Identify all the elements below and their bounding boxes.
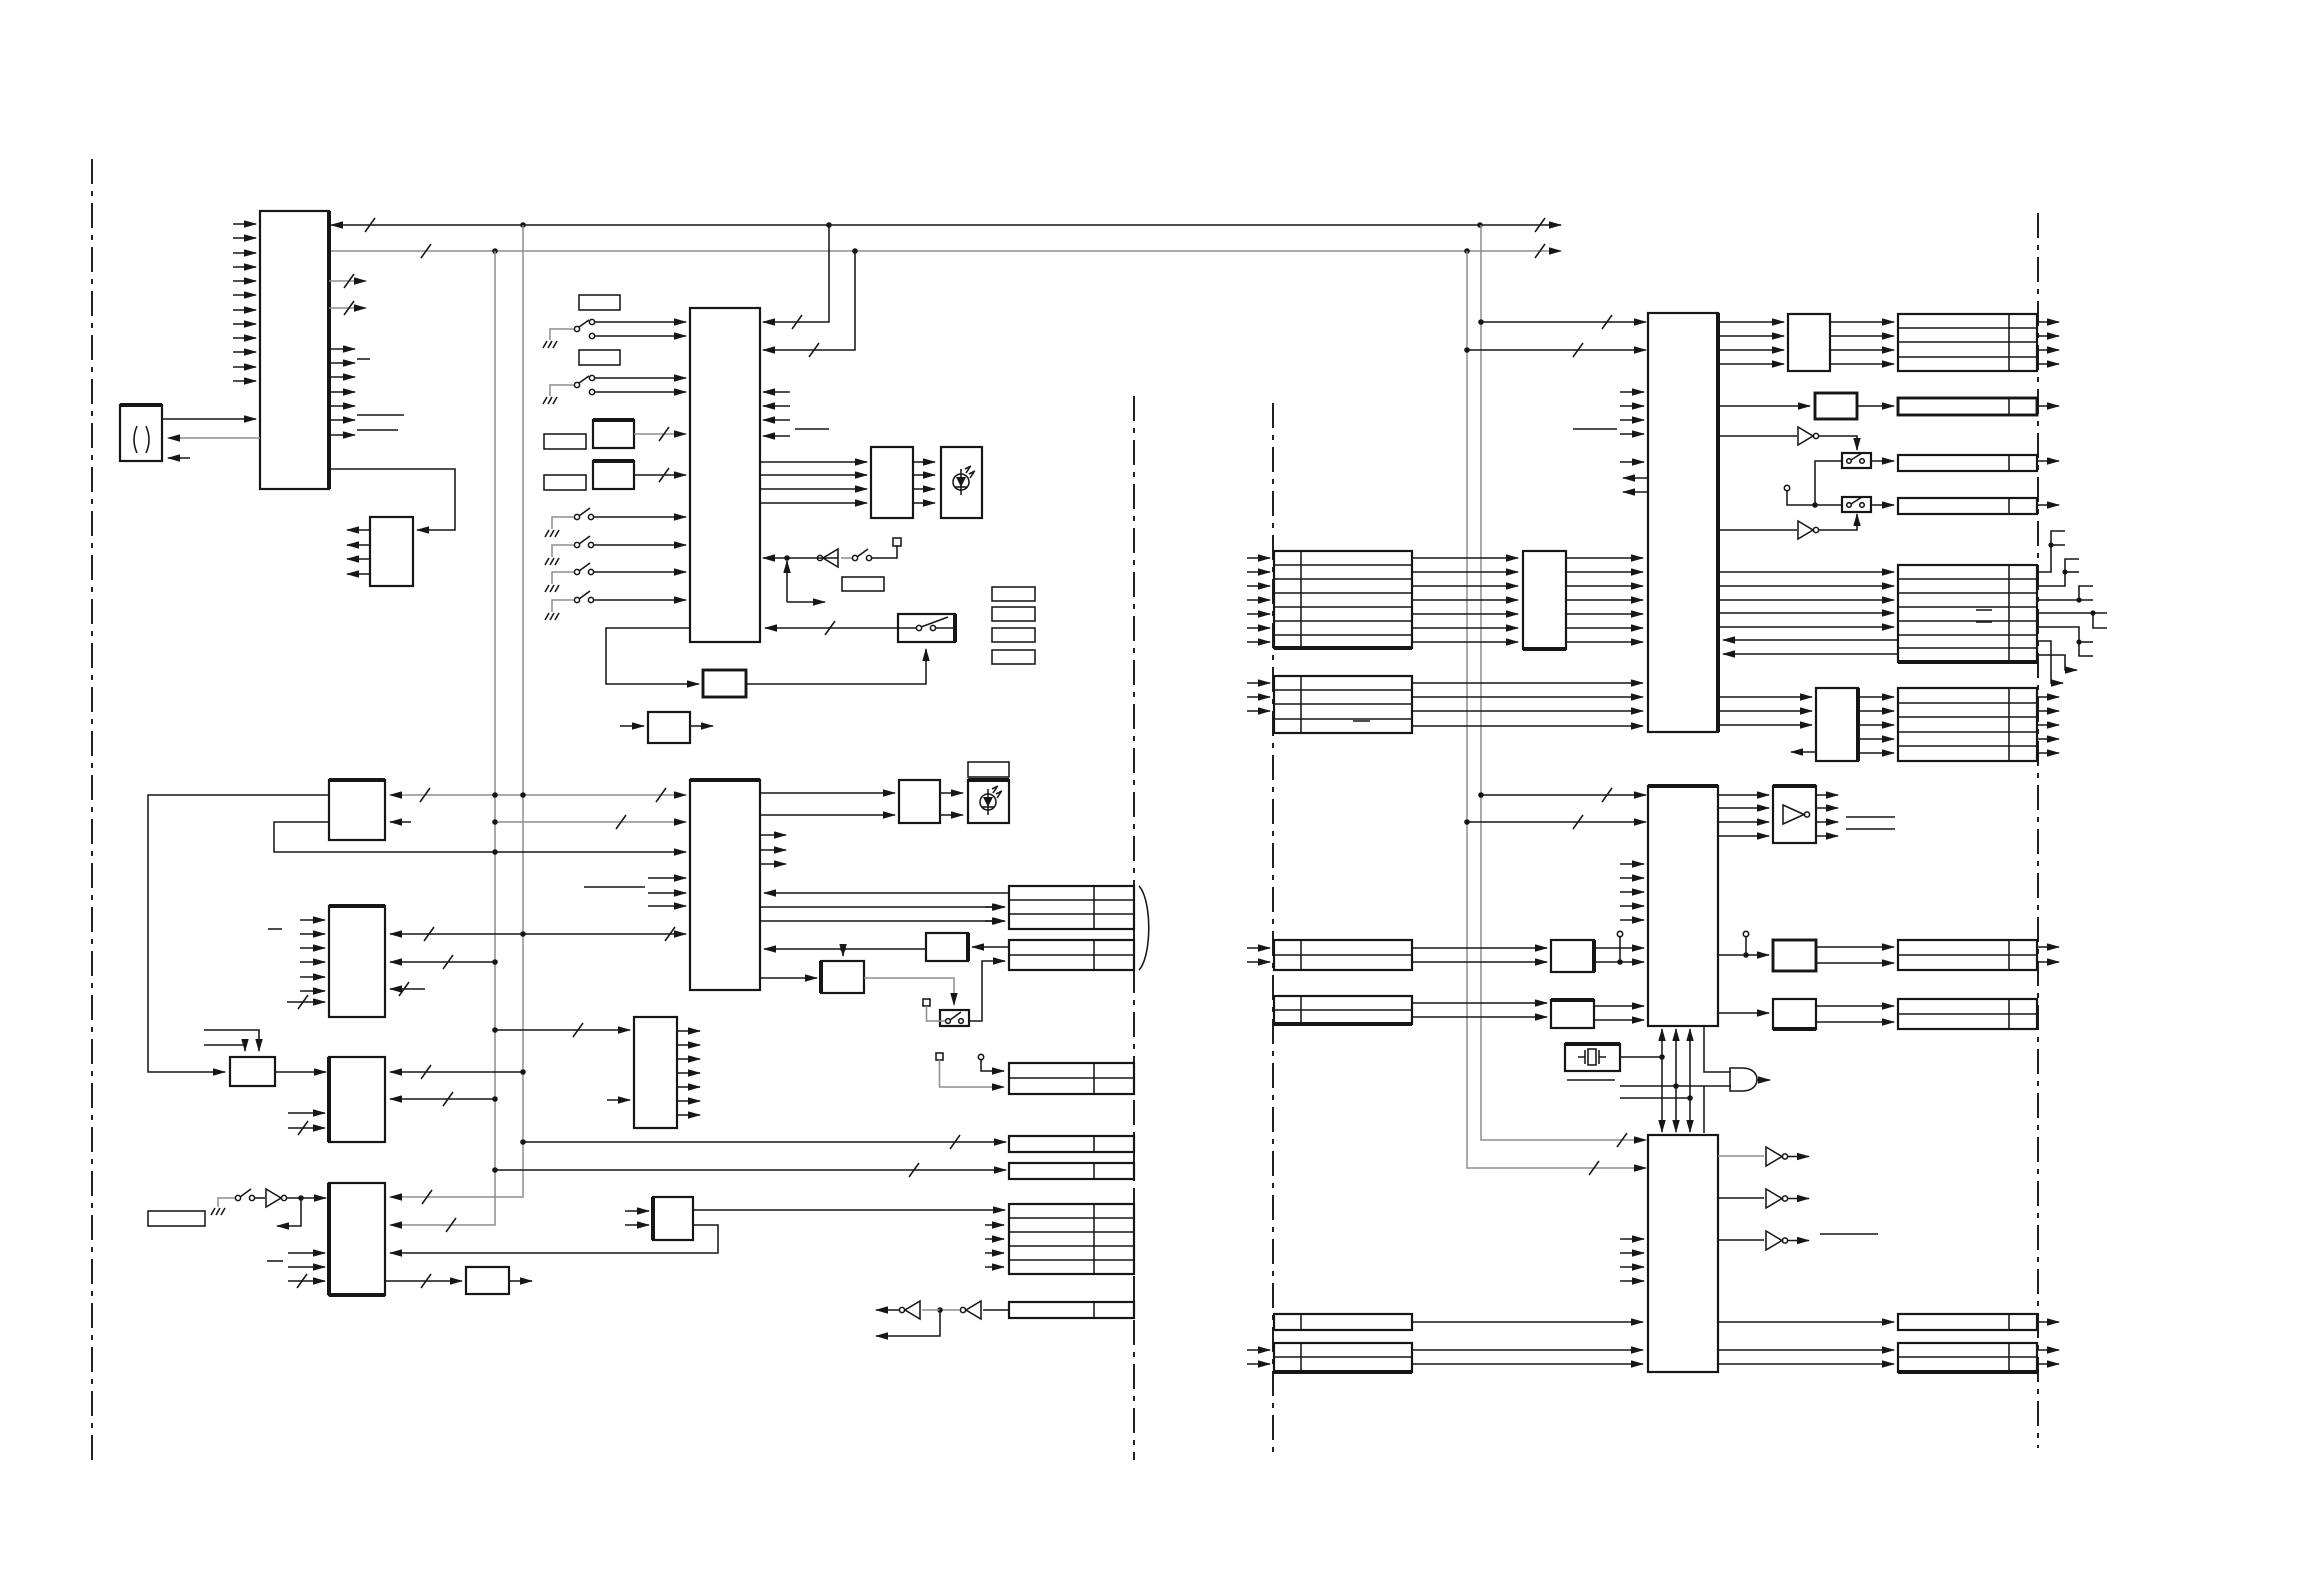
wire stub pins U30 left 3 [1620, 1266, 1644, 1268]
wire SW2 to U4 1 [594, 377, 686, 379]
wire stub pins U28 left 5 [1620, 919, 1644, 921]
wire D5 step out 1 [2037, 531, 2065, 572]
wire SW12 to D4 [1871, 504, 1894, 506]
LED D2 display [968, 780, 1009, 823]
wire input pins U14b 3 [300, 947, 325, 949]
wire C4 to U33 1 [1412, 947, 1547, 949]
wire input pins U14b 4 [300, 961, 325, 963]
wire input pins U1 12 [233, 380, 256, 382]
wire A4 to U22 [287, 1197, 326, 1199]
wire U27 to D1 2 [1830, 335, 1894, 337]
wire U32 to D6 3 [1858, 724, 1894, 726]
frame dash-dot border center-left [1133, 396, 1135, 1460]
connector box D10 [1898, 1343, 2037, 1372]
wire U20 to U21 [275, 1071, 326, 1073]
connector box B1 [1009, 886, 1134, 929]
wire U2b to U4 bus [634, 474, 686, 476]
wire stub node rail3 [1620, 1097, 1690, 1099]
label box K9 [992, 650, 1035, 664]
wire D5 to U25 return 1 [1723, 639, 1898, 641]
inverter A7 [1718, 1155, 1764, 1157]
IC U36 driver [1773, 999, 1816, 1029]
wire bus y962 into U14b [390, 961, 495, 963]
wire B2 row1 to U13 [972, 946, 1009, 948]
wire U24 to B6 row1 [693, 1209, 1005, 1211]
wire branch to U28 y822 [1467, 821, 1646, 823]
wire U8 to D2 1 [940, 792, 963, 794]
wire clock rail 1 2 [1661, 1080, 1663, 1132]
wire output pins U1 7 [329, 434, 355, 436]
wire U4 feedback to U10 [606, 628, 699, 684]
wire C1 to U26 6 [1412, 627, 1518, 629]
inverter A4 [254, 1197, 265, 1199]
wire U4 to U5 1 [760, 461, 867, 463]
wire U25 to D5 4 [1718, 612, 1894, 614]
switch SW7 [841, 557, 852, 559]
label box K11 [148, 1211, 205, 1226]
wire input pins B6 3 [985, 1252, 1004, 1254]
wire U28 to U29 4 [1718, 835, 1769, 837]
IC U3 driver [370, 517, 413, 586]
wire C3 to U35 1 [1412, 1002, 1547, 1004]
wire U26 to U25 1 [1566, 557, 1643, 559]
connector box D5 [1898, 565, 2037, 662]
inverter A3 [966, 1301, 981, 1319]
wire C1 to U26 2 [1412, 571, 1518, 573]
wire U30 to D10 1 [1718, 1349, 1894, 1351]
wire U13 to U12 [764, 948, 926, 950]
wire bus y934 between U14b and U4 [390, 933, 686, 935]
switch SW10 [218, 1198, 235, 1207]
wire U25 to U32 2 [1718, 710, 1812, 712]
wire U33 to U28 2 [1594, 961, 1644, 963]
connector box D9 [1898, 1314, 2037, 1330]
wire SW11 to D3 [1871, 460, 1894, 462]
wire U11 output [690, 725, 713, 727]
connector box D4 [1898, 498, 2037, 514]
wire U1 to U3 loop [329, 469, 455, 530]
wire B7 to A3 [983, 1309, 1009, 1311]
bus wire DATA2 top [329, 250, 1561, 252]
wire vertical bus drop x523 [390, 225, 523, 1197]
wire node branch down-left [277, 1198, 301, 1226]
wire output pins U1 1 [329, 348, 355, 350]
wire stub pins U21 [288, 1112, 325, 1114]
wire U12 to U8 1 [760, 792, 895, 794]
wire input pins B1 1 [985, 906, 1004, 908]
wire output pins D10 [2037, 1349, 2059, 1351]
wire clock rail 2 1 [1675, 1029, 1677, 1080]
inverter A8 [1718, 1197, 1764, 1199]
wire U25 to D5 3 [1718, 599, 1894, 601]
wire clock rail 2 2 [1675, 1080, 1677, 1132]
wire input pins U14b 5 [300, 976, 325, 978]
wire out pins U25 left 1 [1623, 477, 1648, 479]
wire output pin D2 [2037, 405, 2059, 407]
switch SW4 [574, 542, 579, 547]
connector box B2 [1009, 940, 1134, 970]
wire switch select rail [1815, 461, 1842, 505]
wire U26 to U25 2 [1566, 571, 1643, 573]
IC U5 LED driver [871, 447, 913, 518]
label line U4 right [795, 428, 829, 430]
wire input pins B6 2 [985, 1238, 1004, 1240]
label line A9 [1820, 1233, 1878, 1235]
wire U32 to D6 2 [1858, 710, 1894, 712]
wire output pins U19 1 [677, 1030, 700, 1032]
IC U26 input buffer [1523, 551, 1566, 649]
wire C6 to U30 1 [1412, 1349, 1643, 1351]
wire SW1 to U4 2 [594, 335, 686, 337]
IC U10 reset [703, 670, 746, 697]
wire U26 to U25 4 [1566, 599, 1643, 601]
frame dash-dot border right [2037, 213, 2039, 1448]
wire SW9 to B2 row2 [969, 961, 1005, 1021]
connector box C3 [1274, 996, 1412, 1024]
IC U33 receiver [1551, 940, 1594, 972]
wire stub pins U25 left 1 [1620, 391, 1644, 393]
wire input pins B1 2 [985, 920, 1004, 922]
wire stub pins U28 left 3 [1620, 891, 1644, 893]
IC U28 servo DSP [1648, 786, 1718, 1026]
label box K5 [842, 577, 884, 591]
wire U20 top input B [204, 1045, 245, 1051]
label box K8 [992, 628, 1035, 642]
wire node branch down [876, 1310, 940, 1336]
wire G1 output [1757, 1079, 1770, 1081]
label line U12 left [584, 886, 645, 888]
wire output pins U1 6 [329, 419, 355, 421]
wire output pin D3 [2037, 460, 2059, 462]
wire U33 to U28 1 [1594, 947, 1644, 949]
AND gate G1 [1730, 1068, 1757, 1091]
connector box D2 [1898, 398, 2037, 415]
wire U2a to U4 bus [634, 433, 686, 435]
switch SW1 [574, 326, 579, 331]
IC U30 interface DSP [1648, 1135, 1718, 1372]
switch SW9 [940, 1010, 969, 1026]
wire output pins U12 right 3 [760, 863, 786, 865]
wire D5 step out 4 [2037, 612, 2107, 614]
wire output pins D1 1 [2037, 321, 2059, 323]
wire D5 step out 7 [2037, 655, 2077, 670]
wire output pins D1 3 [2037, 349, 2059, 351]
terminal TP3 [936, 1053, 943, 1060]
connector box D7 [1898, 940, 2037, 970]
wire stub pins U30 left 4 [1620, 1280, 1644, 1282]
wire output pin D4 [2037, 504, 2059, 506]
frame dash-dot border center-right [1272, 403, 1274, 1455]
wire stub pins U25 left 2 [1620, 405, 1644, 407]
IC U8 LED driver 2 [899, 780, 940, 823]
inverter A5 [1718, 435, 1797, 437]
ground SW1 [543, 341, 557, 348]
wire U30 to D9 [1718, 1321, 1894, 1323]
wire SW3 to U4 [593, 516, 686, 518]
label box K10 [968, 762, 1009, 777]
wire U32 out stub [1791, 751, 1816, 753]
wire input pins U1 6 [233, 294, 256, 296]
wire U25 to D5 2 [1718, 585, 1894, 587]
wire U27 to D1 1 [1830, 321, 1894, 323]
wire input pins B6 4 [985, 1266, 1004, 1268]
ground SW4 [545, 558, 559, 565]
wire bus y1170 to B5 [495, 1169, 1006, 1171]
IC U14b decoder [329, 906, 385, 1017]
terminal TP6 [1617, 931, 1622, 936]
wire input pins U1 5 [233, 280, 256, 282]
wire C4 to U33 2 [1412, 961, 1547, 963]
wire output pins U19 4 [677, 1072, 700, 1074]
label tick U22 [267, 1260, 283, 1262]
wire stub U19 [607, 1099, 630, 1101]
IC U4 servo controller [690, 308, 760, 642]
wire bus y1030 to U19 [495, 1029, 630, 1031]
label box K3 [544, 434, 586, 449]
IC U14a interface [329, 780, 385, 840]
frame dash-dot border left [91, 159, 93, 1463]
wire U28 to U29 2 [1718, 807, 1769, 809]
connector brace [1139, 886, 1149, 970]
wire U28 to U36 [1718, 1012, 1769, 1014]
IC U2b sensor [593, 461, 634, 489]
wire C1 to U26 3 [1412, 585, 1518, 587]
wire input pins U24 1 [625, 1210, 649, 1212]
wire U10 to SW8 [746, 649, 926, 684]
wire input pins U1 9 [233, 337, 256, 339]
wire bus drop x829 to U4 [763, 225, 829, 322]
wire C1 to U26 4 [1412, 599, 1518, 601]
wire stub pins U30 left 2 [1620, 1252, 1644, 1254]
wire feedback U14a to U12 y852 [274, 822, 686, 852]
wire stub pins U25 left 4 [1620, 433, 1644, 435]
wire input pins U1 3 [233, 252, 256, 254]
wire input pins C2 3 [1247, 710, 1270, 712]
wire SW4 to U4 [593, 544, 686, 546]
label tick U14b [268, 928, 282, 930]
terminal TP1 [893, 538, 901, 546]
wire U26 to U25 3 [1566, 585, 1643, 587]
ground SW2 [543, 397, 557, 404]
switch box SW8 [898, 614, 955, 642]
wire U28 to U29 1 [1718, 794, 1769, 796]
wire SW1 to U4 1 [594, 321, 686, 323]
label line X1 [1567, 1079, 1615, 1081]
wire U27 to D1 3 [1830, 349, 1894, 351]
wire output pins U3 4 [347, 573, 370, 575]
wire C5 to U30 [1412, 1321, 1643, 1323]
wire U34 to D7 1 [1816, 946, 1894, 948]
wire U25 to U32 1 [1718, 696, 1812, 698]
wire bus y822 gray to U4 [495, 821, 686, 823]
wire clock rail 1 1 [1661, 1029, 1663, 1080]
wire node to U15a [842, 949, 844, 956]
wire stub pins U28 left 2 [1620, 877, 1644, 879]
IC U15a driver [821, 961, 864, 993]
wire U26 to U25 5 [1566, 613, 1643, 615]
wire output pins U19 7 [677, 1114, 700, 1116]
wire U31 to D2 [1857, 405, 1894, 407]
wire stub y822 into U14a [390, 821, 411, 823]
terminal TP7 [1743, 931, 1748, 936]
wire input pins C1 7 [1247, 641, 1270, 643]
wire input pins U1 10 [233, 351, 256, 353]
bus wire DATA1 top [331, 224, 1561, 226]
wire output pin D9 [2037, 1321, 2059, 1323]
wire C2 to U25 3 [1412, 710, 1643, 712]
IC U13 latch [926, 933, 968, 961]
wire U32 to D6 5 [1858, 752, 1894, 754]
label line U1 out A [357, 414, 404, 416]
wire U35 to U28 2 [1594, 1019, 1644, 1021]
wire U14a left link [148, 795, 329, 1072]
wire input pins C2 2 [1247, 696, 1270, 698]
connector box B3 [1009, 1063, 1134, 1094]
wire output pins D6 2 [2037, 710, 2059, 712]
label line U1 out B [357, 429, 398, 431]
wire U29 outputs 3 [1816, 821, 1838, 823]
wire bus input U14b bottom [287, 1001, 325, 1003]
IC U29 buffer amp [1773, 786, 1816, 843]
wire output pins D6 4 [2037, 738, 2059, 740]
wire stub pins U4 right 1 [763, 391, 790, 393]
wire input pins U1 7 [233, 309, 256, 311]
connector box B6 [1009, 1204, 1134, 1274]
wire U30 to D10 2 [1718, 1363, 1894, 1365]
switch SW5 [574, 569, 579, 574]
wire bus y795 between U14a and U4 [390, 794, 686, 796]
wire vertical bus drop x495 [390, 251, 495, 1225]
wire U34 to D7 2 [1816, 962, 1894, 964]
connector box B5 [1009, 1163, 1134, 1179]
wire U4 to U5 2 [760, 474, 867, 476]
wire output pins U19 6 [677, 1100, 700, 1102]
wire U24 to U22 [390, 1225, 718, 1253]
label box K6 [992, 587, 1035, 601]
wire U5 to D1 1 [913, 461, 935, 463]
wire U28 to G1 [1704, 1026, 1731, 1072]
connector box C5 [1274, 1314, 1412, 1330]
wire SW8 to U4 [765, 627, 898, 629]
wire U22 to U23 bus [385, 1280, 462, 1282]
wire output pins D7 2 [2037, 961, 2059, 963]
wire vertical bus drop x1481 to U30 [1481, 225, 1646, 1140]
wire U35 to U28 1 [1594, 1005, 1644, 1007]
wire U25 to U27 2 [1718, 335, 1784, 337]
IC U12 audio processor [690, 780, 760, 990]
terminal TP2 [923, 999, 930, 1006]
IC U34 driver [1773, 940, 1816, 971]
wire U29 outputs 1 [1816, 794, 1838, 796]
wire input pins U14b 2 [300, 933, 325, 935]
wire input pins C1 2 [1247, 571, 1270, 573]
wire bus out U1 y308 [329, 307, 366, 309]
wire G1 node to U30 [1703, 1086, 1705, 1133]
wire output pins U1 3 [329, 376, 355, 378]
wire input pins C1 4 [1247, 599, 1270, 601]
wire output pins U12 right 2 [760, 849, 786, 851]
IC U2a sensor [593, 420, 634, 448]
wire D5 step out 6 [2037, 641, 2063, 683]
wire output pins D1 4 [2037, 363, 2059, 365]
label ticks D5 [1976, 610, 1992, 622]
connector box C4 [1274, 940, 1412, 970]
wire vertical bus drop x1467 to U30 [1467, 251, 1646, 1168]
wire U4 to U5 4 [760, 502, 867, 504]
wire U23 output [509, 1280, 532, 1282]
wire SW2 to U4 2 [594, 391, 686, 393]
connector box C1 [1274, 551, 1412, 648]
ground SW3 [545, 530, 559, 537]
wire D5 step out 5 [2037, 627, 2093, 656]
wire clock rail 3 2 [1689, 1080, 1691, 1132]
label tick U1 [357, 358, 370, 360]
wire U5 to D1 3 [913, 488, 935, 490]
wire stub pin U25 y462 [1620, 461, 1644, 463]
label box K4 [544, 475, 586, 490]
wire input pins U1 2 [233, 237, 256, 239]
wire U4 to U5 3 [760, 488, 867, 490]
wire input pins C1 6 [1247, 627, 1270, 629]
wire bus drop x855 to U4 [763, 251, 855, 350]
label box K2 [579, 350, 620, 365]
wire output pins U3 1 [347, 529, 370, 531]
wire C1 to U26 1 [1412, 557, 1518, 559]
wire U26 to U25 6 [1566, 627, 1643, 629]
label tick C2 [1353, 720, 1370, 722]
wire U25 to U27 4 [1718, 363, 1784, 365]
wire stub pins U22 [288, 1252, 325, 1254]
wire U32 to D6 1 [1858, 696, 1894, 698]
terminal TP4 [978, 1054, 983, 1059]
wire out pins U25 left 2 [1623, 491, 1648, 493]
wire output pins D6 3 [2037, 724, 2059, 726]
wire output pins U19 2 [677, 1044, 700, 1046]
label line U29 out A [1846, 816, 1895, 818]
IC U11 buffer [648, 712, 690, 743]
speaker SP1 [120, 405, 162, 461]
wire input pins U24 2 [625, 1224, 649, 1226]
wire input pins U12 3 [648, 905, 686, 907]
switch SW12 [1842, 497, 1871, 512]
wire G1 input 2 [1620, 1085, 1731, 1087]
wire input pins U1 8 [233, 323, 256, 325]
wire stub pins U28 left 4 [1620, 905, 1644, 907]
wire stub pins U4 right 3 [763, 419, 790, 421]
wire SP1 to U1 [162, 418, 256, 420]
IC U21 memory [329, 1057, 385, 1142]
wire clock rail 3 1 [1689, 1029, 1691, 1080]
switch SW2 [574, 382, 579, 387]
wire input pins C4 1 [1247, 947, 1270, 949]
wire U32 to D6 4 [1858, 738, 1894, 740]
wire stub pins U28 left 1 [1620, 863, 1644, 865]
wire stub pins U30 left 1 [1620, 1238, 1644, 1240]
IC U20 buffer [230, 1057, 275, 1086]
wire C2 to U25 2 [1412, 696, 1643, 698]
wire U11 input [620, 725, 644, 727]
wire output pins D1 2 [2037, 335, 2059, 337]
wire stub pins U4 right 4 [763, 435, 790, 437]
ground SW5 [545, 585, 559, 592]
wire output pins D6 1 [2037, 696, 2059, 698]
wire U5 to D1 2 [913, 474, 935, 476]
wire input pins C1 3 [1247, 585, 1270, 587]
wire U29 outputs 2 [1816, 807, 1838, 809]
wire U25 to U27 3 [1718, 349, 1784, 351]
connector box D6 [1898, 688, 2037, 761]
label box K1 [579, 295, 620, 310]
